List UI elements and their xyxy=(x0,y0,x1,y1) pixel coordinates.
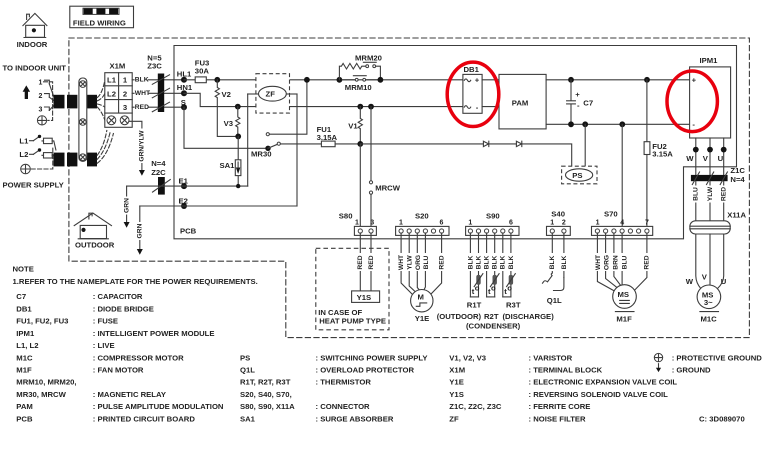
wire S70 pin4 BLU to M1F xyxy=(621,233,628,285)
svg-text:Y1E: Y1E xyxy=(449,378,464,387)
svg-text:RED: RED xyxy=(439,255,446,269)
svg-text:-: - xyxy=(692,120,695,129)
varistor V2 xyxy=(215,80,238,137)
svg-text:Q1L: Q1L xyxy=(547,296,562,305)
field wiring blob indoor left xyxy=(54,95,65,109)
svg-text:V2: V2 xyxy=(222,90,231,99)
wire S80 pin3 to Y1S RED xyxy=(367,233,374,291)
wire RED X1M to S xyxy=(132,103,184,111)
ferrite core Z2C xyxy=(151,159,170,194)
green-yellow ground wire from X1M xyxy=(129,121,146,176)
wire bundle cable xyxy=(79,78,87,161)
svg-text:IPM1: IPM1 xyxy=(700,56,719,65)
svg-text:V1, V2, V3: V1, V2, V3 xyxy=(449,353,486,362)
svg-text:3~: 3~ xyxy=(704,298,713,307)
svg-text:MS: MS xyxy=(618,290,630,299)
connector S70 xyxy=(592,209,653,235)
svg-text:S20, S40, S70,: S20, S40, S70, xyxy=(240,390,292,399)
ferrite core Z1C xyxy=(691,166,746,185)
svg-text:C: 3D089070: C: 3D089070 xyxy=(699,414,745,423)
svg-text:3: 3 xyxy=(39,106,43,113)
wire S70 pin7 RED to M1F xyxy=(634,233,651,291)
node HL1 xyxy=(177,70,192,83)
svg-text:BLK: BLK xyxy=(549,255,556,269)
svg-text:DB1: DB1 xyxy=(464,65,480,74)
svg-text:C7: C7 xyxy=(16,292,26,301)
outdoor unit dashed boundary xyxy=(69,38,750,338)
svg-text:Q1L: Q1L xyxy=(240,366,255,375)
svg-text:NOTE: NOTE xyxy=(13,265,34,274)
svg-text:+: + xyxy=(475,76,480,85)
junction FU2 top xyxy=(644,77,650,83)
svg-text:MRM10: MRM10 xyxy=(345,83,372,92)
thermistor R1T xyxy=(467,274,483,310)
svg-text:PCB: PCB xyxy=(180,227,197,236)
svg-text:L1: L1 xyxy=(19,136,29,145)
junction second line left xyxy=(357,104,363,110)
svg-text:: MAGNETIC RELAY: : MAGNETIC RELAY xyxy=(93,390,166,399)
svg-text:X1M: X1M xyxy=(449,366,465,375)
wire DB1 to PAM bottom xyxy=(482,106,499,108)
wire S20 pin6 RED to Y1E xyxy=(431,233,446,294)
indoor terminal dashed outline xyxy=(44,82,53,121)
thermistor R2T xyxy=(487,274,500,297)
fuse FU3 30A xyxy=(195,59,210,83)
svg-text:BLK: BLK xyxy=(561,255,568,269)
indoor terminal 1 xyxy=(39,80,54,97)
svg-text:IN CASE OF: IN CASE OF xyxy=(318,308,362,317)
direction arrow up xyxy=(23,85,31,99)
svg-text:: SWITCHING POWER SUPPLY: : SWITCHING POWER SUPPLY xyxy=(316,353,428,362)
svg-text:S90: S90 xyxy=(486,211,500,220)
legend ground symbol xyxy=(658,364,660,369)
svg-text:R3T: R3T xyxy=(506,301,521,310)
svg-text:+: + xyxy=(575,90,580,99)
svg-text:: GROUND: : GROUND xyxy=(672,366,711,375)
node S xyxy=(181,98,187,110)
svg-text:: PRINTED CIRCUIT BOARD: : PRINTED CIRCUIT BOARD xyxy=(93,414,196,423)
junction SA1 bottom xyxy=(236,184,240,188)
wire E2 line xyxy=(140,205,297,207)
svg-text:-: - xyxy=(476,103,479,112)
svg-text:M: M xyxy=(418,293,424,302)
wire X11A to M1C V xyxy=(709,234,711,285)
svg-text:Z1C: Z1C xyxy=(730,166,745,175)
svg-text:FU1, FU2, FU3: FU1, FU2, FU3 xyxy=(16,317,68,326)
svg-text:TO INDOOR UNIT: TO INDOOR UNIT xyxy=(3,64,67,73)
L2 live terminal with switch xyxy=(19,148,53,159)
svg-text:BLK: BLK xyxy=(484,255,491,269)
svg-text:6: 6 xyxy=(440,219,444,226)
svg-text:YLW: YLW xyxy=(407,255,414,270)
svg-text:2: 2 xyxy=(562,219,566,226)
wire S line to MR30 xyxy=(184,107,268,148)
wire S90 pin2 BLK xyxy=(475,233,482,297)
svg-text:R1T: R1T xyxy=(467,301,482,310)
svg-text:PAM: PAM xyxy=(512,99,529,108)
wire S90 pin6 BLK xyxy=(508,233,515,297)
svg-text:o: o xyxy=(491,284,496,293)
svg-text:o: o xyxy=(475,284,480,293)
svg-text:Z3C: Z3C xyxy=(147,61,162,70)
svg-text:ZF: ZF xyxy=(266,90,276,99)
fuse FU2 3.15A xyxy=(644,80,673,229)
svg-text:GRN: GRN xyxy=(137,223,144,238)
wire S40 pin2 BLK to Q1L xyxy=(561,233,568,278)
svg-text:ZF: ZF xyxy=(449,414,459,423)
svg-text:L1, L2: L1, L2 xyxy=(16,341,38,350)
svg-text:: TERMINAL BLOCK: : TERMINAL BLOCK xyxy=(529,366,603,375)
svg-text:1: 1 xyxy=(550,219,554,226)
connector S80 xyxy=(339,211,377,235)
indoor terminal 2 xyxy=(39,93,54,101)
svg-text:M1C: M1C xyxy=(16,353,33,362)
svg-text:: OVERLOAD PROTECTOR: : OVERLOAD PROTECTOR xyxy=(316,366,415,375)
svg-text:FIELD WIRING: FIELD WIRING xyxy=(73,18,126,27)
wire MR30 upper throw to HL1 line xyxy=(269,80,307,134)
svg-text:S80: S80 xyxy=(339,211,353,220)
svg-text:L1: L1 xyxy=(107,76,117,85)
field wiring legend box xyxy=(70,6,134,28)
svg-text:: SURGE ABSORBER: : SURGE ABSORBER xyxy=(316,414,394,423)
protective ground symbol indoor xyxy=(37,116,46,125)
svg-text:GRN: GRN xyxy=(123,198,130,213)
terminal dots W V U xyxy=(693,147,699,153)
svg-text:PAM: PAM xyxy=(16,402,33,411)
wire BLK X1M to HL1 xyxy=(132,76,184,84)
wire ZF left lead to E1 line xyxy=(247,94,249,186)
wire diode line to PS xyxy=(360,144,571,166)
svg-text:3: 3 xyxy=(370,219,374,226)
svg-text:: THERMISTOR: : THERMISTOR xyxy=(316,378,372,387)
wire S70 pin2 ORG to M1F xyxy=(603,233,618,288)
wire Z1C to X11A RED xyxy=(720,181,727,221)
wire S20 pin1 WHT to Y1E xyxy=(398,233,413,295)
svg-text:DB1: DB1 xyxy=(16,304,32,313)
wire S90 pin1 BLK xyxy=(467,233,474,297)
svg-text:M1C: M1C xyxy=(701,315,718,324)
svg-text:S70: S70 xyxy=(604,209,618,218)
svg-text:V3: V3 xyxy=(224,119,233,128)
junction C7 top xyxy=(568,77,574,83)
relay contact MRCW xyxy=(369,107,400,230)
varistor V3Z xyxy=(224,104,242,140)
svg-text:RED: RED xyxy=(357,255,364,269)
svg-text:-: - xyxy=(577,101,580,110)
varistor V1Z xyxy=(348,107,363,147)
svg-text:: NOISE FILTER: : NOISE FILTER xyxy=(529,414,587,423)
dashed field wires power blob to X1M xyxy=(97,131,113,164)
svg-text:BLK: BLK xyxy=(508,255,515,269)
wire DB1 to PAM top xyxy=(482,79,499,81)
capacitor C7 xyxy=(567,80,594,125)
svg-text:HEAT PUMP TYPE: HEAT PUMP TYPE xyxy=(319,317,386,326)
junction HL1 at MR30 riser xyxy=(304,77,310,83)
node HN1 xyxy=(177,83,193,96)
svg-text:R1T, R2T, R3T: R1T, R2T, R3T xyxy=(240,378,291,387)
svg-text:: CONNECTOR: : CONNECTOR xyxy=(316,402,371,411)
svg-text:BRN: BRN xyxy=(613,255,620,270)
indoor terminal 3 xyxy=(39,105,54,113)
svg-text:: PULSE AMPLITUDE MODULATION: : PULSE AMPLITUDE MODULATION xyxy=(93,402,224,411)
junction S70 pin4 drop xyxy=(619,121,625,127)
red highlight circle around IPM1 xyxy=(667,71,717,132)
svg-text:S80, S90, X11A: S80, S90, X11A xyxy=(240,402,295,411)
svg-text:30A: 30A xyxy=(195,67,210,76)
svg-text:OUTDOOR: OUTDOOR xyxy=(75,241,115,250)
wire DC minus line xyxy=(546,123,690,125)
ferrite core Z3C xyxy=(147,53,169,112)
wire MR30 to FU1 xyxy=(280,143,360,145)
svg-text:1: 1 xyxy=(399,219,403,226)
svg-text:X1M: X1M xyxy=(110,62,126,71)
svg-text:2: 2 xyxy=(39,93,43,100)
wire E1 line xyxy=(127,185,248,187)
svg-text:BLK: BLK xyxy=(475,255,482,269)
svg-text:RED: RED xyxy=(368,255,375,269)
L1 live terminal with switch xyxy=(19,135,56,150)
wire DC plus line xyxy=(546,79,690,81)
junction PS drop xyxy=(582,121,588,127)
svg-text:POWER SUPPLY: POWER SUPPLY xyxy=(3,180,64,189)
svg-text:: VARISTOR: : VARISTOR xyxy=(529,353,573,362)
heat pump option dashed box xyxy=(316,248,389,329)
wire S20 pin4 BLU to Y1E xyxy=(423,233,430,289)
wire S90 pin4 BLK xyxy=(491,233,498,297)
svg-text:S40: S40 xyxy=(551,209,565,218)
svg-text:L2: L2 xyxy=(19,150,28,159)
svg-text:2: 2 xyxy=(123,89,127,98)
wire S80 pin1 riser xyxy=(359,144,361,229)
svg-text:: INTELLIGENT POWER MODULE: : INTELLIGENT POWER MODULE xyxy=(93,329,215,338)
wire PS feed xyxy=(584,124,586,166)
svg-text:1: 1 xyxy=(468,219,472,226)
svg-text:MRM10, MRM20,: MRM10, MRM20, xyxy=(16,378,76,387)
svg-text:BLU: BLU xyxy=(423,255,430,269)
junction C7 bottom xyxy=(568,121,574,127)
wire IPM1 output W xyxy=(695,138,697,175)
svg-text:1: 1 xyxy=(39,80,43,87)
diode D1 xyxy=(483,141,488,146)
diode bridge DB1 xyxy=(463,65,482,114)
svg-text:WHT: WHT xyxy=(398,254,405,270)
svg-text:Y1S: Y1S xyxy=(357,293,372,302)
PCB board outline xyxy=(174,46,737,239)
field wiring blob indoor right xyxy=(87,95,97,109)
junction after FU3 xyxy=(214,77,220,83)
wire Z1C to X11A BLU xyxy=(692,181,699,221)
field wiring blob power right xyxy=(87,153,97,167)
svg-text:BLU: BLU xyxy=(693,187,700,201)
svg-text:L2: L2 xyxy=(107,89,116,98)
dashed field wires blob to X1M xyxy=(97,82,104,120)
ground wire GRN E1 xyxy=(123,186,130,228)
svg-text:V: V xyxy=(702,273,708,282)
wire WHT X1M to HN1 xyxy=(132,89,184,97)
svg-text:7: 7 xyxy=(645,219,649,226)
svg-text:: ELECTRONIC EXPANSION VALVE C: : ELECTRONIC EXPANSION VALVE COIL xyxy=(529,378,678,387)
svg-text:MR30, MRCW: MR30, MRCW xyxy=(16,390,66,399)
svg-text:(OUTDOOR): (OUTDOOR) xyxy=(437,312,482,321)
connector S40 xyxy=(547,209,571,235)
svg-text:BLK: BLK xyxy=(492,255,499,269)
svg-text:IPM1: IPM1 xyxy=(16,329,35,338)
wire S90 pin5 BLK xyxy=(500,233,507,297)
svg-text:Z2C: Z2C xyxy=(151,168,166,177)
svg-text:3.15A: 3.15A xyxy=(652,149,673,158)
wire IPM1 output U xyxy=(723,138,725,175)
wire S70 pin3 BRN to M1F xyxy=(612,233,621,286)
connector X11A xyxy=(690,210,747,234)
wire S70 pin1 WHT to M1F xyxy=(595,233,616,292)
svg-text:1.REFER TO THE NAMEPLATE FOR T: 1.REFER TO THE NAMEPLATE FOR THE POWER R… xyxy=(13,277,258,286)
svg-text:WHT: WHT xyxy=(135,90,151,97)
svg-text:M1F: M1F xyxy=(616,315,632,324)
svg-text:: DIODE BRIDGE: : DIODE BRIDGE xyxy=(93,304,154,313)
svg-text:MR30: MR30 xyxy=(251,149,272,158)
svg-text:V: V xyxy=(703,154,709,163)
svg-text:N=4: N=4 xyxy=(730,175,745,184)
compressor motor M1C xyxy=(697,285,721,324)
svg-text:: CAPACITOR: : CAPACITOR xyxy=(93,292,143,301)
svg-text:4: 4 xyxy=(620,219,624,226)
svg-text:: FAN MOTOR: : FAN MOTOR xyxy=(93,366,144,375)
svg-text:Z1C, Z2C, Z3C: Z1C, Z2C, Z3C xyxy=(449,402,502,411)
wire S70 pin4 feed xyxy=(621,124,623,229)
svg-text:ORG: ORG xyxy=(415,255,422,270)
svg-text:RED: RED xyxy=(644,255,651,269)
wire S20 pin3 ORG to Y1E xyxy=(414,233,421,290)
svg-text:INDOOR: INDOOR xyxy=(17,40,48,49)
svg-text:YLW: YLW xyxy=(707,186,714,201)
connector S20 xyxy=(396,211,449,235)
svg-text:Y1S: Y1S xyxy=(449,390,464,399)
svg-text:WHT: WHT xyxy=(595,254,602,270)
svg-text:: FUSE: : FUSE xyxy=(93,317,118,326)
svg-text:: FERRITE CORE: : FERRITE CORE xyxy=(529,402,591,411)
fuse FU1 3.15A xyxy=(317,125,338,147)
wire IPM1 output V xyxy=(709,138,711,175)
svg-text:1: 1 xyxy=(355,219,359,226)
surge absorber SA1 xyxy=(220,136,241,186)
svg-text:BLK: BLK xyxy=(467,255,474,269)
intelligent power module IPM1 xyxy=(690,56,731,138)
svg-text:1: 1 xyxy=(596,219,600,226)
protective ground symbol power supply xyxy=(21,148,53,174)
svg-text:: COMPRESSOR MOTOR: : COMPRESSOR MOTOR xyxy=(93,353,184,362)
svg-text:W: W xyxy=(686,154,694,163)
svg-text:MRM20: MRM20 xyxy=(355,53,382,62)
thermistor R3T xyxy=(503,274,521,310)
terminal block X1M xyxy=(105,62,132,128)
svg-text:MRCW: MRCW xyxy=(375,183,401,192)
node E1 xyxy=(179,176,189,189)
pulse amplitude modulation PAM xyxy=(499,74,546,128)
ground wire GRN E2 xyxy=(136,206,143,255)
svg-text:(DISCHARGE): (DISCHARGE) xyxy=(503,312,555,321)
svg-text:C7: C7 xyxy=(583,99,593,108)
svg-text:SA1: SA1 xyxy=(220,161,236,170)
svg-text:Y1E: Y1E xyxy=(415,314,430,323)
relay contact MRM20 with resistor xyxy=(337,53,382,82)
svg-text:R2T: R2T xyxy=(484,312,499,321)
diode D2 xyxy=(516,141,521,146)
field wiring blob power left xyxy=(54,153,65,167)
electronic expansion valve coil Y1E xyxy=(411,290,433,324)
svg-text:SA1: SA1 xyxy=(240,414,256,423)
svg-text:X11A: X11A xyxy=(727,210,746,219)
svg-text:U: U xyxy=(718,154,724,163)
wire S90 pin3 BLK xyxy=(483,233,490,297)
wire X11A to M1C W xyxy=(696,234,701,289)
svg-text:BLK: BLK xyxy=(135,77,149,84)
svg-text:RED: RED xyxy=(135,104,149,111)
indoor house icon xyxy=(17,13,48,49)
svg-text:ORG: ORG xyxy=(604,255,611,270)
svg-text:PS: PS xyxy=(240,353,250,362)
wire S80 pin1 to Y1S RED xyxy=(357,233,364,291)
svg-text:PS: PS xyxy=(572,171,582,180)
junction second line right xyxy=(368,104,374,110)
svg-text:PCB: PCB xyxy=(16,414,33,423)
svg-text:: LIVE: : LIVE xyxy=(93,341,115,350)
wire S20 pin2 YLW to Y1E xyxy=(406,233,415,292)
svg-text:6: 6 xyxy=(509,219,513,226)
svg-text:W: W xyxy=(686,277,694,286)
svg-text:S20: S20 xyxy=(415,211,429,220)
svg-text:: PROTECTIVE GROUND: : PROTECTIVE GROUND xyxy=(672,353,763,362)
svg-text:+: + xyxy=(692,76,697,85)
svg-text:U: U xyxy=(721,277,727,286)
svg-text:o: o xyxy=(507,284,512,293)
switching power supply PS xyxy=(562,166,597,184)
svg-text:GRN/YLW: GRN/YLW xyxy=(139,130,146,162)
svg-text:1: 1 xyxy=(123,76,128,85)
svg-text:BLU: BLU xyxy=(622,255,629,269)
noise filter ZF xyxy=(248,74,297,113)
reversing solenoid valve coil Y1S xyxy=(352,291,380,303)
wire X11A to M1C U xyxy=(717,234,723,289)
wire S40 pin1 BLK to Q1L xyxy=(549,233,556,273)
relay contact MRM10 xyxy=(342,76,383,92)
wire ZF right lead to E2 line xyxy=(296,94,298,206)
svg-text:M1F: M1F xyxy=(16,366,32,375)
svg-text:V1: V1 xyxy=(348,121,358,130)
svg-text:BLK: BLK xyxy=(500,255,507,269)
svg-text:(CONDENSER): (CONDENSER) xyxy=(466,321,521,330)
relay contact MR30 xyxy=(251,133,280,159)
wire HL1 line xyxy=(184,79,463,81)
red highlight circle around DB1 xyxy=(447,62,499,126)
overload protector Q1L xyxy=(543,273,564,305)
node E2 xyxy=(179,196,188,209)
svg-text:3: 3 xyxy=(123,103,127,112)
svg-text:: REVERSING SOLENOID VALVE COI: : REVERSING SOLENOID VALVE COIL xyxy=(529,390,669,399)
outdoor house icon xyxy=(74,213,115,250)
connector S90 xyxy=(466,211,519,235)
svg-text:RED: RED xyxy=(721,187,728,201)
legend protective ground symbol xyxy=(654,353,662,361)
wire HN1 jog xyxy=(184,93,463,106)
wire Z1C to X11A YLW xyxy=(706,181,713,221)
fan motor M1F xyxy=(613,285,637,324)
